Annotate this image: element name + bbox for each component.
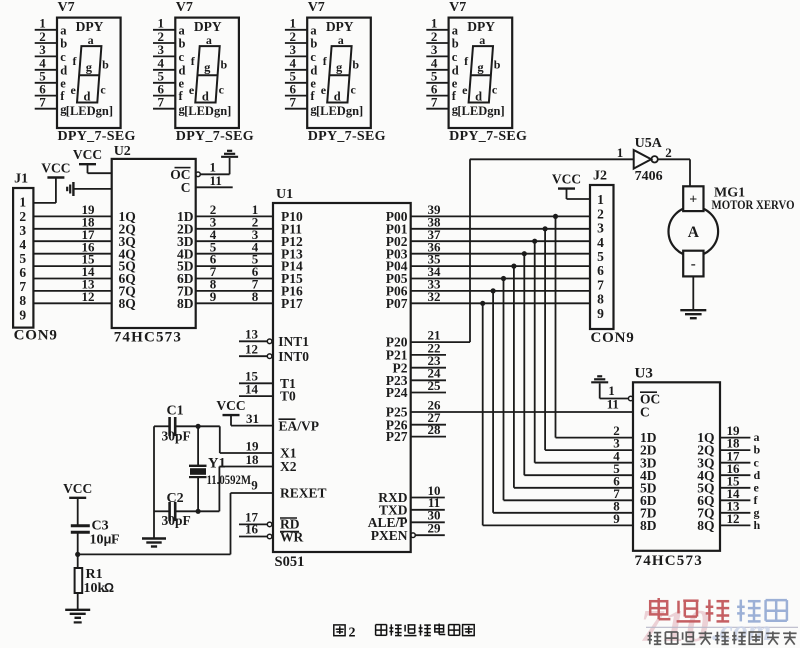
svg-text:13: 13 bbox=[245, 327, 259, 342]
svg-text:8: 8 bbox=[252, 289, 259, 304]
svg-text:7: 7 bbox=[289, 95, 296, 110]
svg-text:a: a bbox=[479, 33, 485, 47]
svg-text:INT1: INT1 bbox=[278, 334, 309, 349]
svg-text:7: 7 bbox=[39, 95, 46, 110]
svg-text:4: 4 bbox=[597, 235, 604, 250]
svg-text:74HC573: 74HC573 bbox=[635, 553, 703, 569]
svg-text:e: e bbox=[189, 83, 195, 97]
svg-text:g: g bbox=[86, 60, 93, 74]
svg-text:f: f bbox=[310, 89, 315, 103]
svg-text:c: c bbox=[351, 83, 357, 97]
svg-text:C1: C1 bbox=[167, 404, 184, 419]
svg-text:U5A: U5A bbox=[635, 136, 663, 151]
svg-text:-: - bbox=[691, 257, 696, 273]
svg-text:8D: 8D bbox=[177, 296, 194, 311]
svg-text:11.0592M: 11.0592M bbox=[207, 472, 252, 487]
svg-text:c: c bbox=[492, 83, 498, 97]
svg-text:e: e bbox=[321, 83, 327, 97]
svg-text:2: 2 bbox=[349, 626, 356, 641]
svg-text:VCC: VCC bbox=[63, 481, 92, 496]
svg-text:CON9: CON9 bbox=[14, 328, 58, 344]
svg-text:b: b bbox=[179, 37, 186, 51]
svg-text:9: 9 bbox=[210, 289, 217, 304]
svg-text:8D: 8D bbox=[640, 518, 657, 533]
svg-text:25: 25 bbox=[428, 378, 442, 393]
svg-text:8: 8 bbox=[597, 292, 604, 307]
svg-text:P24: P24 bbox=[386, 385, 408, 400]
svg-text:8Q: 8Q bbox=[697, 518, 714, 533]
svg-text:a: a bbox=[88, 33, 94, 47]
svg-text:X2: X2 bbox=[280, 459, 297, 474]
svg-text:10k: 10k bbox=[84, 581, 106, 596]
svg-text:DPY_7-SEG: DPY_7-SEG bbox=[58, 129, 136, 144]
svg-text:d: d bbox=[334, 89, 341, 103]
svg-text:12: 12 bbox=[727, 511, 740, 526]
svg-text:EA/VP: EA/VP bbox=[279, 418, 320, 433]
svg-text:C: C bbox=[181, 180, 191, 195]
svg-text:1: 1 bbox=[617, 145, 624, 160]
svg-text:f: f bbox=[323, 54, 328, 68]
svg-text:74HC573: 74HC573 bbox=[114, 330, 182, 346]
svg-text:C: C bbox=[640, 404, 650, 419]
svg-text:a: a bbox=[452, 23, 459, 37]
svg-text:7: 7 bbox=[597, 277, 604, 292]
svg-text:c: c bbox=[100, 83, 106, 97]
svg-text:c: c bbox=[452, 50, 458, 64]
svg-text:b: b bbox=[220, 58, 227, 72]
svg-text:c: c bbox=[60, 50, 66, 64]
svg-text:VCC: VCC bbox=[552, 172, 581, 187]
svg-text:12: 12 bbox=[82, 289, 95, 304]
svg-text:7: 7 bbox=[19, 279, 26, 294]
svg-text:C2: C2 bbox=[167, 491, 184, 506]
svg-text:7: 7 bbox=[158, 95, 165, 110]
svg-text:Y1: Y1 bbox=[208, 456, 226, 472]
svg-text:b: b bbox=[352, 58, 359, 72]
svg-text:d: d bbox=[310, 63, 317, 77]
svg-text:10: 10 bbox=[90, 533, 104, 548]
svg-text:3: 3 bbox=[19, 223, 26, 238]
svg-text:a: a bbox=[179, 23, 186, 37]
svg-text:6: 6 bbox=[597, 263, 604, 278]
svg-text:9: 9 bbox=[613, 511, 620, 526]
svg-text:CON9: CON9 bbox=[591, 330, 635, 346]
svg-text:g: g bbox=[204, 60, 211, 74]
svg-text:5: 5 bbox=[597, 249, 604, 264]
svg-text:g: g bbox=[477, 60, 484, 74]
svg-text:b: b bbox=[60, 37, 67, 51]
svg-text:a: a bbox=[338, 33, 344, 47]
svg-text:b: b bbox=[494, 58, 501, 72]
svg-text:e: e bbox=[462, 83, 468, 97]
svg-text:REXET: REXET bbox=[280, 486, 327, 501]
svg-text:2: 2 bbox=[665, 145, 672, 160]
svg-text:31: 31 bbox=[246, 411, 259, 426]
svg-text:a: a bbox=[310, 23, 317, 37]
svg-text:U1: U1 bbox=[276, 187, 293, 202]
svg-text:16: 16 bbox=[245, 522, 259, 537]
svg-text:5: 5 bbox=[19, 251, 26, 266]
svg-text:MOTOR XERVO: MOTOR XERVO bbox=[712, 197, 795, 212]
svg-text:VCC: VCC bbox=[216, 398, 245, 413]
svg-text:R1: R1 bbox=[86, 567, 103, 582]
svg-text:1: 1 bbox=[19, 195, 26, 210]
svg-text:[LEDgn]: [LEDgn] bbox=[66, 104, 113, 118]
svg-text:V7: V7 bbox=[449, 0, 466, 15]
svg-text:d: d bbox=[202, 89, 209, 103]
svg-text:[LEDgn]: [LEDgn] bbox=[457, 104, 504, 118]
svg-text:4: 4 bbox=[19, 237, 26, 252]
svg-text:J2: J2 bbox=[593, 169, 607, 184]
svg-text:+: + bbox=[689, 193, 697, 208]
svg-text:P07: P07 bbox=[386, 296, 408, 311]
svg-text:7: 7 bbox=[431, 95, 438, 110]
svg-text:d: d bbox=[475, 89, 482, 103]
svg-text:18: 18 bbox=[246, 452, 260, 467]
svg-text:P17: P17 bbox=[281, 296, 303, 311]
svg-text:J1: J1 bbox=[14, 172, 28, 187]
svg-text:[LEDgn]: [LEDgn] bbox=[184, 104, 231, 118]
svg-text:f: f bbox=[73, 54, 78, 68]
svg-text:VCC: VCC bbox=[73, 147, 102, 162]
svg-text:7406: 7406 bbox=[635, 169, 663, 184]
svg-text:2: 2 bbox=[597, 206, 604, 221]
svg-text:VCC: VCC bbox=[41, 161, 70, 176]
svg-text:2: 2 bbox=[19, 209, 26, 224]
svg-text:d: d bbox=[60, 63, 67, 77]
svg-text:μ: μ bbox=[104, 532, 112, 547]
svg-text:3: 3 bbox=[597, 221, 604, 236]
svg-text:T0: T0 bbox=[280, 389, 296, 404]
svg-text:32: 32 bbox=[428, 289, 441, 304]
svg-text:a: a bbox=[206, 33, 212, 47]
svg-text:DPY_7-SEG: DPY_7-SEG bbox=[308, 129, 386, 144]
svg-text:U2: U2 bbox=[114, 144, 131, 159]
svg-text:PXEN: PXEN bbox=[371, 528, 408, 543]
svg-text:14: 14 bbox=[245, 381, 259, 396]
svg-text:INT0: INT0 bbox=[278, 349, 309, 364]
svg-text:28: 28 bbox=[428, 422, 442, 437]
svg-text:Ω: Ω bbox=[104, 581, 114, 595]
svg-text:c: c bbox=[219, 83, 225, 97]
svg-text:f: f bbox=[60, 89, 65, 103]
svg-text:12: 12 bbox=[245, 341, 258, 356]
svg-text:d: d bbox=[84, 89, 91, 103]
svg-text:f: f bbox=[179, 89, 184, 103]
svg-text:f: f bbox=[452, 89, 457, 103]
svg-text:F: F bbox=[111, 533, 120, 548]
svg-text:DPY_7-SEG: DPY_7-SEG bbox=[449, 129, 527, 144]
svg-text:S051: S051 bbox=[275, 554, 305, 570]
svg-text:d: d bbox=[452, 63, 459, 77]
svg-text:b: b bbox=[452, 37, 459, 51]
svg-text:30pF: 30pF bbox=[162, 513, 191, 528]
svg-text:9: 9 bbox=[19, 307, 26, 322]
svg-text:[LEDgn]: [LEDgn] bbox=[316, 104, 363, 118]
svg-text:e: e bbox=[71, 83, 77, 97]
svg-text:g: g bbox=[336, 60, 343, 74]
svg-text:U3: U3 bbox=[635, 365, 653, 381]
svg-text:11: 11 bbox=[210, 173, 222, 188]
svg-text:V7: V7 bbox=[308, 0, 325, 15]
svg-text:9: 9 bbox=[251, 477, 258, 492]
svg-text:DPY_7-SEG: DPY_7-SEG bbox=[176, 129, 254, 144]
svg-text:29: 29 bbox=[428, 521, 442, 536]
svg-text:b: b bbox=[102, 58, 109, 72]
svg-text:b: b bbox=[310, 37, 317, 51]
svg-text:8: 8 bbox=[19, 293, 26, 308]
svg-text:8Q: 8Q bbox=[119, 296, 136, 311]
svg-text:f: f bbox=[191, 54, 196, 68]
svg-text:c: c bbox=[179, 50, 185, 64]
svg-text:30pF: 30pF bbox=[162, 429, 191, 444]
svg-text:V7: V7 bbox=[176, 0, 193, 15]
svg-text:9: 9 bbox=[597, 306, 604, 321]
svg-text:P27: P27 bbox=[386, 429, 408, 444]
svg-text:1: 1 bbox=[597, 192, 604, 207]
svg-text:f: f bbox=[464, 54, 469, 68]
svg-text:6: 6 bbox=[19, 265, 26, 280]
svg-text:11: 11 bbox=[607, 397, 619, 412]
svg-text:V7: V7 bbox=[58, 0, 75, 15]
svg-text:h: h bbox=[754, 518, 761, 532]
svg-text:d: d bbox=[179, 63, 186, 77]
svg-text:A: A bbox=[688, 224, 700, 241]
svg-text:c: c bbox=[310, 50, 316, 64]
svg-text:a: a bbox=[60, 23, 67, 37]
